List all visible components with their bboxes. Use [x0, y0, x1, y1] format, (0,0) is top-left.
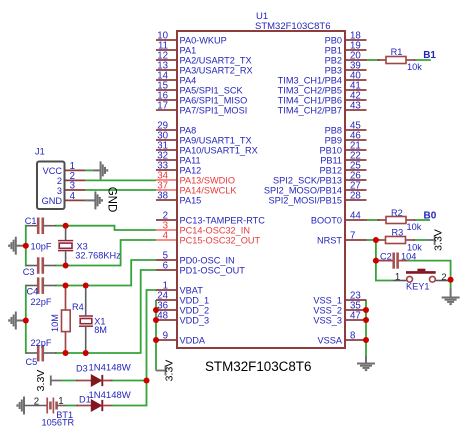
svg-text:PA2/USART2_TX: PA2/USART2_TX [180, 55, 252, 65]
pin 36 VDD_2 (left) [156, 309, 176, 311]
wire C2 right to KEY1 pin2 [404, 261, 451, 281]
pin 13 PA3/USART2_RX (left) [156, 69, 176, 71]
svg-text:R3: R3 [392, 228, 404, 238]
pin 45 PB8 (right) [346, 129, 367, 131]
svg-text:R4: R4 [72, 302, 84, 312]
wire PB2 to R1 [366, 59, 380, 61]
svg-text:9: 9 [163, 331, 168, 342]
svg-text:C3: C3 [23, 267, 35, 277]
wire D3 cathode to VBAT vertical [110, 380, 147, 382]
junction (X1 bottom) [83, 350, 89, 356]
svg-text:PB11: PB11 [320, 155, 342, 165]
svg-text:PA6/SPI1_MISO: PA6/SPI1_MISO [180, 95, 248, 105]
svg-text:PA11: PA11 [180, 155, 201, 165]
junction (VBAT / D3 cathode) [144, 378, 150, 384]
wire J1 pin2 to PA13/SWDIO [85, 179, 156, 181]
svg-text:4: 4 [163, 231, 169, 242]
svg-text:PD0-OSC_IN: PD0-OSC_IN [180, 255, 235, 265]
svg-text:PA10/USART1_RX: PA10/USART1_RX [180, 145, 258, 155]
J1 pin 1 stub [65, 169, 85, 171]
resistor R2 [377, 217, 416, 224]
svg-text:43: 43 [350, 100, 361, 111]
wire R3 to 3.3V flag [413, 239, 427, 241]
svg-text:3.3V: 3.3V [35, 370, 47, 392]
pin 48 VDD_3 (left) [156, 319, 176, 321]
svg-text:B1: B1 [423, 50, 436, 61]
svg-text:VDDA: VDDA [180, 335, 206, 345]
svg-text:VDD_1: VDD_1 [180, 295, 210, 305]
svg-text:TIM3_CH1/PB4: TIM3_CH1/PB4 [278, 75, 342, 85]
pin 2 PC13-TAMPER-RTC (left) [156, 219, 176, 221]
pin 18 PB0 (right) [346, 39, 367, 41]
svg-text:VSS_3: VSS_3 [313, 315, 342, 325]
svg-text:1056TR: 1056TR [42, 417, 75, 427]
pin 11 PA1 (left) [156, 49, 176, 51]
wire C4 row to PD0 (pin 5) [55, 260, 156, 286]
pin 28 SPI2_MOSI/PB15 (right) [346, 199, 367, 201]
pin 8 VSSA (right) [346, 339, 367, 341]
svg-text:VSS_1: VSS_1 [313, 295, 342, 305]
pin 3 PC14-OSC32_IN (left) [156, 229, 176, 231]
pin 44 BOOT0 (right) [346, 219, 367, 221]
resistor R4 [62, 287, 71, 352]
wire NRST to R3 [366, 239, 380, 241]
svg-text:VCC: VCC [43, 166, 63, 176]
svg-text:PB9: PB9 [325, 135, 342, 145]
pin 20 PB2 (right) [346, 59, 367, 61]
junction (R4 bottom) [63, 350, 69, 356]
pin 4 PC15-OSC32_OUT (left) [156, 239, 176, 241]
power flag 3.3V (R3) [427, 235, 435, 245]
svg-text:10pF: 10pF [31, 241, 52, 251]
svg-text:C5: C5 [26, 357, 38, 367]
capacitor C4 [26, 277, 56, 294]
pin 40 TIM3_CH1/PB4 (right) [346, 79, 367, 81]
svg-text:PB2: PB2 [325, 55, 342, 65]
wire VDD rail (VDD_1..VDDA to 3.3V flag) [155, 300, 157, 371]
crystal X3 32.768KHz [58, 227, 73, 265]
svg-text:7: 7 [350, 230, 355, 241]
ground GND (KEY1) [442, 289, 460, 305]
push button KEY1 [393, 269, 451, 282]
pin 29 PA8 (left) [156, 129, 176, 131]
svg-text:104: 104 [401, 251, 416, 261]
svg-text:TIM4_CH2/PB7: TIM4_CH2/PB7 [278, 105, 342, 115]
svg-text:22pF: 22pF [31, 297, 52, 307]
junction (VSS_3) [363, 317, 369, 323]
pin 1 VBAT (left) [156, 289, 176, 291]
junction (32k rail / gnd) [23, 243, 29, 249]
svg-text:PA12: PA12 [180, 165, 202, 175]
svg-text:3: 3 [57, 186, 62, 196]
svg-text:6: 6 [163, 261, 168, 272]
svg-text:32.768KHz: 32.768KHz [75, 250, 121, 260]
ground GND (battery) [17, 397, 24, 415]
svg-text:2: 2 [441, 271, 446, 282]
junction (8M rail / gnd) [23, 318, 29, 324]
pin 31 PA10/USART1_RX (left) [156, 149, 176, 151]
pin 43 TIM4_CH2/PB7 (right) [346, 109, 367, 111]
svg-text:22pF: 22pF [31, 338, 52, 348]
pin 22 PB11 (right) [346, 159, 367, 161]
svg-text:3.3V: 3.3V [433, 229, 445, 251]
wire C2 left junction [376, 260, 382, 262]
junction (NRST / R3 / KEY1) [373, 237, 379, 243]
wire 3.3V flag to D3 anode [61, 380, 78, 382]
svg-text:R1: R1 [391, 47, 403, 57]
junction (VSSA) [363, 337, 369, 343]
svg-text:PA8: PA8 [180, 125, 197, 135]
pin 46 PB9 (right) [346, 139, 367, 141]
svg-text:R2: R2 [391, 208, 403, 218]
wire C3 row to PC15 (pin 4) [55, 240, 156, 266]
pin 17 PA7/SPI1_MOSI (left) [156, 109, 176, 111]
svg-text:SPI2_SCK/PB13: SPI2_SCK/PB13 [273, 175, 342, 185]
wire 8M left rail (C4 to C5) [25, 285, 27, 354]
svg-text:PA13/SWDIO: PA13/SWDIO [180, 175, 235, 185]
svg-text:47: 47 [350, 310, 361, 321]
svg-text:BOOT0: BOOT0 [311, 215, 342, 225]
wire BOOT0 to R2 [366, 219, 380, 221]
svg-text:VBAT: VBAT [180, 285, 204, 295]
svg-text:SPI2_MOSI/PB15: SPI2_MOSI/PB15 [268, 195, 342, 205]
pin 21 PB10 (right) [346, 149, 367, 151]
power flag 3.3V (D3 anode) [51, 376, 61, 386]
svg-text:3: 3 [70, 181, 75, 192]
IC U1 STM32F103C8T6 body [177, 31, 345, 348]
svg-text:8: 8 [350, 330, 355, 341]
capacitor C5 [26, 345, 56, 362]
svg-text:TIM4_CH1/PB6: TIM4_CH1/PB6 [278, 95, 342, 105]
svg-text:17: 17 [157, 101, 168, 112]
resistor R3 [377, 237, 415, 244]
pin 34 PA13/SWDIO (left) [156, 179, 176, 181]
power flag (J1 pin 1, arrow right) [93, 161, 108, 179]
svg-text:1N4148W: 1N4148W [89, 362, 131, 373]
svg-text:10M: 10M [50, 314, 60, 332]
svg-text:PC14-OSC32_IN: PC14-OSC32_IN [180, 225, 250, 235]
svg-text:PB3: PB3 [325, 65, 342, 75]
svg-text:NRST: NRST [317, 235, 342, 245]
junction (VSS_2) [363, 307, 369, 313]
svg-text:1N4148W: 1N4148W [89, 390, 131, 401]
pin 24 VDD_1 (left) [156, 299, 176, 301]
wire R1 to net label B1 [414, 59, 431, 61]
svg-text:10k: 10k [407, 62, 422, 72]
pin 30 PA9/USART1_TX (left) [156, 139, 176, 141]
svg-text:PA1: PA1 [180, 45, 197, 55]
pin 10 PA0-WKUP (left) [156, 39, 176, 41]
svg-text:2: 2 [57, 176, 62, 186]
svg-text:VSS_2: VSS_2 [313, 305, 342, 315]
wire C1 row to PC14 (pin 3) [55, 226, 156, 230]
wire J1 pin3 to PA14/SWCLK [85, 189, 156, 191]
svg-text:PB8: PB8 [325, 125, 342, 135]
pin 26 SPI2_SCK/PB13 (right) [346, 179, 367, 181]
svg-text:GND: GND [42, 196, 63, 206]
svg-text:STM32F103C8T6: STM32F103C8T6 [255, 21, 331, 32]
svg-text:PB12: PB12 [320, 165, 342, 175]
svg-text:PA5/SPI1_SCK: PA5/SPI1_SCK [180, 85, 244, 95]
svg-text:44: 44 [350, 210, 361, 221]
pin 5 PD0-OSC_IN (left) [156, 259, 176, 261]
pin 41 TIM3_CH2/PB5 (right) [346, 89, 367, 91]
pin 14 PA4 (left) [156, 79, 176, 81]
pin 38 PA15 (left) [156, 199, 176, 201]
connector J1 body [37, 162, 65, 210]
pin 37 PA14/SWCLK (left) [156, 189, 176, 191]
svg-text:J1: J1 [35, 147, 45, 157]
svg-text:PA7/SPI1_MOSI: PA7/SPI1_MOSI [180, 105, 248, 115]
wire J1 pin1 to power flag [85, 169, 92, 171]
svg-text:KEY1: KEY1 [406, 282, 430, 292]
svg-text:STM32F103C8T6: STM32F103C8T6 [205, 359, 311, 374]
svg-text:2: 2 [34, 397, 39, 408]
pin 16 PA6/SPI1_MISO (left) [156, 99, 176, 101]
wire KEY1 pin2 to ground [450, 280, 452, 289]
pin 6 PD1-OSC_OUT (left) [156, 269, 176, 271]
svg-text:PC15-OSC32_OUT: PC15-OSC32_OUT [180, 235, 261, 245]
svg-text:C1: C1 [25, 216, 37, 226]
pin 19 PB1 (right) [346, 49, 367, 51]
junction (R4 top) [63, 283, 69, 289]
wire battery to D1 anode [66, 405, 78, 407]
junction (VDDA) [153, 337, 159, 343]
svg-text:10k: 10k [407, 222, 422, 232]
svg-text:C2: C2 [380, 251, 392, 261]
diode D3 1N4148W [76, 375, 113, 386]
ground GND (8M rail) [9, 312, 26, 330]
svg-text:PA3/USART2_RX: PA3/USART2_RX [180, 65, 253, 75]
svg-text:TIM3_CH2/PB5: TIM3_CH2/PB5 [278, 85, 342, 95]
svg-text:38: 38 [157, 191, 168, 202]
svg-text:28: 28 [350, 190, 361, 201]
capacitor C1 [26, 218, 56, 235]
J1 pin 4 stub [65, 199, 85, 201]
svg-text:PB0: PB0 [325, 35, 342, 45]
junction (VDD_3) [153, 317, 159, 323]
svg-text:3.3V: 3.3V [164, 360, 176, 382]
junction (X3 top / C1 row) [63, 223, 69, 229]
wire 32k left rail (C1 to C3) [25, 225, 27, 267]
svg-text:1: 1 [395, 272, 400, 283]
diode D1 1N4148W [76, 400, 113, 411]
svg-text:4: 4 [70, 191, 76, 202]
svg-text:8M: 8M [94, 325, 107, 335]
power flag 3.3V (VDD rail) [156, 366, 166, 376]
ground GND (VSS rail) [357, 356, 375, 370]
pin 32 PA11 (left) [156, 159, 176, 161]
svg-text:PB10: PB10 [320, 145, 342, 155]
svg-text:SPI2_MOSO/PB14: SPI2_MOSO/PB14 [264, 185, 342, 195]
svg-text:PA9/USART1_TX: PA9/USART1_TX [180, 135, 252, 145]
pin 9 VDDA (left) [156, 339, 176, 341]
pin 7 NRST (right) [346, 239, 367, 241]
junction (C2 left) [373, 258, 379, 264]
pin 23 VSS_1 (right) [346, 299, 367, 301]
ground GND (J1 pin 4, arrow right) [85, 191, 102, 209]
svg-text:PA0-WKUP: PA0-WKUP [180, 35, 227, 45]
pin 47 VSS_3 (right) [346, 319, 367, 321]
svg-text:VDD_3: VDD_3 [180, 315, 210, 325]
resistor R1 [377, 57, 416, 64]
pin 39 PB3 (right) [346, 69, 367, 71]
battery BT1 [24, 398, 66, 414]
junction (VDD_2) [153, 307, 159, 313]
svg-text:VSSA: VSSA [317, 335, 342, 345]
wire VBAT net (pin1 to diode junction to D1) [113, 290, 157, 406]
svg-text:PD1-OSC_OUT: PD1-OSC_OUT [180, 265, 246, 275]
wire VSS rail to ground [365, 300, 367, 356]
svg-text:D3: D3 [76, 364, 88, 374]
capacitor C2 [376, 253, 407, 269]
svg-text:PA15: PA15 [180, 195, 202, 205]
pin 25 PB12 (right) [346, 169, 367, 171]
svg-text:PB1: PB1 [325, 45, 342, 55]
crystal X1 8M [79, 287, 93, 352]
J1 pin 2 stub [65, 179, 85, 181]
svg-text:VDD_2: VDD_2 [180, 305, 210, 315]
pin 33 PA12 (left) [156, 169, 176, 171]
svg-text:PA4: PA4 [180, 75, 197, 85]
wire C5 row to PD1 (pin 6) [55, 270, 156, 353]
svg-text:1: 1 [58, 396, 63, 407]
junction (X1 top) [83, 283, 89, 289]
wire NRST junction down to KEY1 pin1 [376, 240, 393, 281]
svg-text:B0: B0 [424, 210, 437, 221]
svg-text:PC13-TAMPER-RTC: PC13-TAMPER-RTC [180, 215, 266, 225]
pin 15 PA5/SPI1_SCK (left) [156, 89, 176, 91]
pin 12 PA2/USART2_TX (left) [156, 59, 176, 61]
pin 27 SPI2_MOSO/PB14 (right) [346, 189, 367, 191]
junction (X3 bottom / C3 row) [63, 263, 69, 269]
pin 42 TIM4_CH1/PB6 (right) [346, 99, 367, 101]
svg-text:GND: GND [105, 187, 117, 213]
pin 35 VSS_2 (right) [346, 309, 367, 311]
wire R2 to net label B0 [414, 219, 430, 221]
ground GND (32k rail) [9, 237, 26, 255]
svg-text:PA14/SWCLK: PA14/SWCLK [180, 185, 238, 195]
J1 pin 3 stub [65, 189, 85, 191]
junction (KEY1 pin2 / gnd) [448, 277, 454, 283]
svg-text:C4: C4 [27, 287, 39, 297]
capacitor C3 [26, 257, 56, 274]
